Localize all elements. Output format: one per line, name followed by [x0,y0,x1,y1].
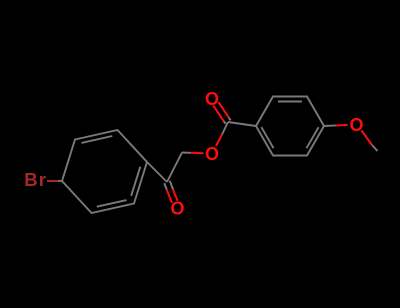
wire ketone-CH2 bond [167,153,182,183]
wire Br-C1' bond red half [47,180,58,182]
wire CH2-O ester bond gray half [182,152,191,154]
wire O-CH3 bond red half [362,131,373,146]
wire C(=O)-ring2 bond [228,122,256,126]
wire ring1-ketone bond [147,162,167,182]
benzene ring 1 (4-bromophenyl), tilted [62,130,147,213]
wire O-C(=O) bond gray half [222,122,228,135]
svg-text:O: O [205,144,219,164]
ester carbonyl C=O double bond [213,102,230,124]
ketone C=O double bond [164,181,177,203]
wire ring2-O methoxy bond gray half [324,124,336,127]
wire O-C(=O) bond red half [216,135,222,147]
benzene ring 2 (4-methoxyphenyl) [256,97,324,156]
wire ring2-O methoxy bond red half [336,124,348,127]
wire CH2-O ester bond red half [191,152,204,155]
svg-text:O: O [170,199,184,219]
svg-text:O: O [205,89,219,109]
wire Br-C1' bond gray half [58,180,62,182]
svg-text:Br: Br [24,169,47,190]
wire O-CH3 bond gray half [372,145,378,151]
